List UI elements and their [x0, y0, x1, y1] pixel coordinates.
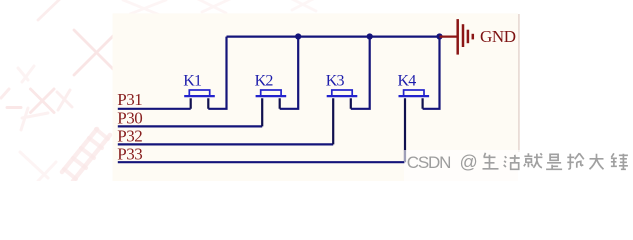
- svg-text:P33: P33: [117, 144, 142, 163]
- wire riser K4 to bus: [423, 37, 440, 109]
- push button K1 symbol: [184, 90, 215, 96]
- ground symbol bars: [458, 19, 473, 55]
- CSDN watermark CJK 抡: [567, 153, 584, 169]
- push button K3 symbol: [327, 90, 358, 96]
- wire riser K3 to bus: [351, 37, 370, 109]
- K2 posts: [262, 98, 280, 126]
- svg-text:K1: K1: [183, 72, 202, 89]
- pink watermark strokes on white background: [38, 0, 317, 75]
- K3 posts: [333, 98, 351, 144]
- panel right border faint line: [518, 14, 520, 152]
- junction dot above K4: [436, 33, 442, 39]
- button terminal posts (dark): [191, 98, 423, 162]
- wire GND bus (top horizontal): [118, 37, 440, 163]
- wire P33 row: [118, 161, 405, 163]
- svg-text:CSDN: CSDN: [407, 153, 450, 172]
- junction dot above K2: [295, 33, 301, 39]
- push button K2 symbol: [256, 90, 287, 96]
- CSDN watermark CJK 锤: [611, 153, 628, 169]
- svg-text:P30: P30: [117, 108, 142, 127]
- wire riser K1 to bus: [208, 37, 226, 109]
- CSDN watermark CJK 就: [524, 153, 543, 168]
- K4 posts: [405, 98, 423, 162]
- CSDN watermark CJK 活: [504, 155, 520, 170]
- wire riser K2 to bus: [280, 37, 299, 109]
- wire P31 row: [118, 108, 191, 110]
- CSDN watermark CJK 是: [546, 154, 562, 169]
- schematic panel (cream capture area): [113, 13, 519, 181]
- CSDN watermark strip: [404, 150, 633, 181]
- svg-text:P32: P32: [117, 127, 142, 146]
- K1 posts: [191, 98, 209, 109]
- svg-text:@: @: [460, 152, 478, 172]
- CSDN watermark CJK 生: [483, 153, 499, 169]
- ground symbol wire (power net): [440, 35, 458, 37]
- svg-text:GND: GND: [480, 27, 516, 46]
- svg-text:K3: K3: [326, 72, 345, 89]
- CSDN watermark CJK 大: [590, 154, 604, 170]
- wire P30 row: [118, 125, 262, 127]
- svg-text:K4: K4: [398, 72, 417, 89]
- faint watermark glyph strokes (left column): [1, 66, 110, 181]
- svg-text:P31: P31: [117, 90, 142, 109]
- wire P32 row: [118, 143, 333, 145]
- svg-text:K2: K2: [255, 72, 274, 89]
- push button K4 symbol: [399, 90, 430, 96]
- junction dot above K3: [367, 33, 373, 39]
